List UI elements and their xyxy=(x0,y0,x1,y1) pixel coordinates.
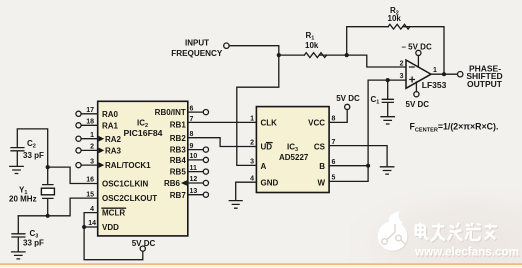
svg-text:9: 9 xyxy=(190,143,194,150)
svg-text:14: 14 xyxy=(88,220,96,227)
svg-text:GND: GND xyxy=(261,178,279,187)
svg-text:11: 11 xyxy=(190,165,198,172)
svg-text:RA2: RA2 xyxy=(105,135,122,144)
pin 3 RA4/TOCK1 xyxy=(81,164,98,166)
wire B xyxy=(329,165,368,167)
terminal 5V DC (op-amp) xyxy=(414,92,419,97)
svg-text:8: 8 xyxy=(190,131,194,138)
svg-text:33 pF: 33 pF xyxy=(23,238,44,247)
svg-text:AD5227: AD5227 xyxy=(279,153,309,162)
wire OSC2CLKOUT xyxy=(18,198,97,216)
svg-text:RAL/TOCK1: RAL/TOCK1 xyxy=(105,161,151,170)
svg-text:PIC16F84: PIC16F84 xyxy=(124,129,164,138)
wire OSC1CLKIN xyxy=(48,167,98,183)
svg-text:3: 3 xyxy=(400,73,404,80)
wire input to pin A xyxy=(237,55,279,165)
svg-text:UD: UD xyxy=(261,143,273,152)
svg-text:10k: 10k xyxy=(388,14,402,23)
svg-text:– 5V DC: – 5V DC xyxy=(402,42,432,51)
svg-text:FREQUENCY: FREQUENCY xyxy=(171,49,223,58)
op-amp LF353 xyxy=(406,60,431,88)
wire R1 to node xyxy=(319,54,346,56)
svg-text:A: A xyxy=(261,162,267,171)
ground xyxy=(229,201,242,209)
svg-text:2: 2 xyxy=(250,140,254,147)
svg-text:15: 15 xyxy=(86,191,94,198)
svg-text:RB3: RB3 xyxy=(170,146,187,155)
svg-text:4: 4 xyxy=(90,206,94,213)
terminal INPUT FREQUENCY xyxy=(224,43,229,48)
svg-text:2: 2 xyxy=(400,60,404,67)
terminal PHASE-SHIFTED OUTPUT xyxy=(458,72,463,77)
svg-text:MCLR: MCLR xyxy=(102,209,125,218)
svg-text:RA0: RA0 xyxy=(102,110,119,119)
svg-text:10k: 10k xyxy=(305,41,319,50)
svg-text:RB5: RB5 xyxy=(170,168,187,177)
svg-text:W: W xyxy=(317,178,325,187)
svg-text:B: B xyxy=(319,162,325,171)
svg-text:6: 6 xyxy=(190,105,194,112)
capacitor C1 xyxy=(382,80,393,116)
pin 17 RA0 xyxy=(81,113,98,115)
wire RB1 to CLK xyxy=(188,121,257,123)
svg-text:5V DC: 5V DC xyxy=(336,94,360,103)
node input xyxy=(277,53,281,57)
svg-text:20 MHz: 20 MHz xyxy=(9,195,37,204)
wire CS to ground xyxy=(329,146,387,167)
svg-text:16: 16 xyxy=(86,177,94,184)
node B/W xyxy=(366,164,370,168)
pin 11 RB5 xyxy=(188,171,204,173)
svg-text:5: 5 xyxy=(332,175,336,182)
svg-text:12: 12 xyxy=(190,176,198,183)
terminal 5V DC (IC2) xyxy=(140,246,145,251)
svg-text:RB0/INT: RB0/INT xyxy=(155,108,186,117)
pin 13 RB7 xyxy=(188,194,204,196)
svg-text:5V DC: 5V DC xyxy=(406,100,430,109)
svg-text:6: 6 xyxy=(332,159,336,166)
terminal 5V DC (IC3) xyxy=(345,104,350,109)
svg-text:OUTPUT: OUTPUT xyxy=(467,79,503,89)
ground xyxy=(381,117,394,124)
svg-text:1: 1 xyxy=(90,132,94,139)
watermark chinese text xyxy=(416,224,498,242)
pin 10 RB4 xyxy=(188,159,204,161)
pin 1 RA2 xyxy=(81,138,98,140)
svg-text:33 pF: 33 pF xyxy=(23,151,44,160)
svg-text:RB4: RB4 xyxy=(170,156,187,165)
svg-text:17: 17 xyxy=(86,107,94,114)
svg-text:RA1: RA1 xyxy=(102,121,119,130)
svg-text:RB7: RB7 xyxy=(170,191,187,200)
wire VCC to 5V xyxy=(329,110,347,123)
capacitor C2 xyxy=(11,148,24,167)
svg-text:7: 7 xyxy=(332,139,336,146)
IC IC2 PIC16F84 body xyxy=(98,101,188,236)
svg-text:www.elecfans.com: www.elecfans.com xyxy=(414,245,519,259)
IC IC3 AD5227 body xyxy=(256,107,329,193)
svg-text:OSC1CLKIN: OSC1CLKIN xyxy=(102,180,148,189)
watermark logo xyxy=(378,211,409,252)
svg-text:RA3: RA3 xyxy=(105,147,122,156)
svg-text:3: 3 xyxy=(90,158,94,165)
wire output xyxy=(431,73,458,75)
pin 12 RB6 xyxy=(188,182,204,184)
pin 14 VDD xyxy=(84,226,98,228)
svg-text:1: 1 xyxy=(250,115,254,122)
svg-text:RB2: RB2 xyxy=(170,134,187,143)
wire R2 to output node xyxy=(403,27,444,74)
ground xyxy=(380,167,393,174)
svg-text:CLK: CLK xyxy=(261,118,278,127)
resistor R1 xyxy=(304,53,326,58)
wire W xyxy=(329,166,368,182)
pin 4 MCLR xyxy=(84,213,98,227)
node crystal top junction xyxy=(46,165,50,169)
svg-text:CS: CS xyxy=(314,143,326,152)
pin 18 RA1 xyxy=(81,124,98,126)
svg-text:10: 10 xyxy=(190,153,198,160)
wire up to R2 xyxy=(347,27,388,55)
svg-text:8: 8 xyxy=(332,115,336,122)
svg-text:3: 3 xyxy=(250,159,254,166)
node after R1 xyxy=(345,53,349,57)
pin 2 RA3 xyxy=(81,149,98,151)
svg-text:OSC2CLKOUT: OSC2CLKOUT xyxy=(102,194,157,203)
svg-text:13: 13 xyxy=(190,188,198,195)
wire RB2 to UD xyxy=(188,138,257,147)
wire node to op-amp inverting input xyxy=(347,55,406,67)
node output xyxy=(442,72,446,76)
wire input xyxy=(229,46,304,55)
svg-text:RB6: RB6 xyxy=(164,179,181,188)
node op-amp noninverting input junction xyxy=(386,78,390,82)
capacitor C3 xyxy=(12,234,25,252)
node crystal bottom xyxy=(46,214,50,218)
svg-text:5V DC: 5V DC xyxy=(132,239,156,248)
svg-text:4: 4 xyxy=(250,175,254,182)
ground xyxy=(10,166,23,173)
pin 6 RB0/INT xyxy=(188,111,204,113)
svg-text:INPUT: INPUT xyxy=(185,38,209,47)
ground xyxy=(12,252,25,259)
svg-text:VCC: VCC xyxy=(308,118,325,127)
wire C2 top branch xyxy=(17,129,47,167)
crystal Y1 xyxy=(43,167,53,216)
pin 9 RB3 xyxy=(188,149,204,151)
terminal -5V DC xyxy=(416,50,421,55)
svg-text:LF353: LF353 xyxy=(422,80,447,90)
svg-text:1: 1 xyxy=(433,67,437,74)
svg-text:2: 2 xyxy=(90,144,94,151)
wire VDD to 5V xyxy=(84,227,143,260)
resistor R2 xyxy=(388,24,410,29)
wire to C3 xyxy=(17,216,19,234)
wire B/W node up to op-amp + input xyxy=(368,80,406,166)
svg-text:18: 18 xyxy=(86,119,94,126)
svg-text:RB1: RB1 xyxy=(170,121,187,130)
svg-text:VDD: VDD xyxy=(102,223,119,232)
wire GND of IC3 to ground xyxy=(236,182,257,200)
